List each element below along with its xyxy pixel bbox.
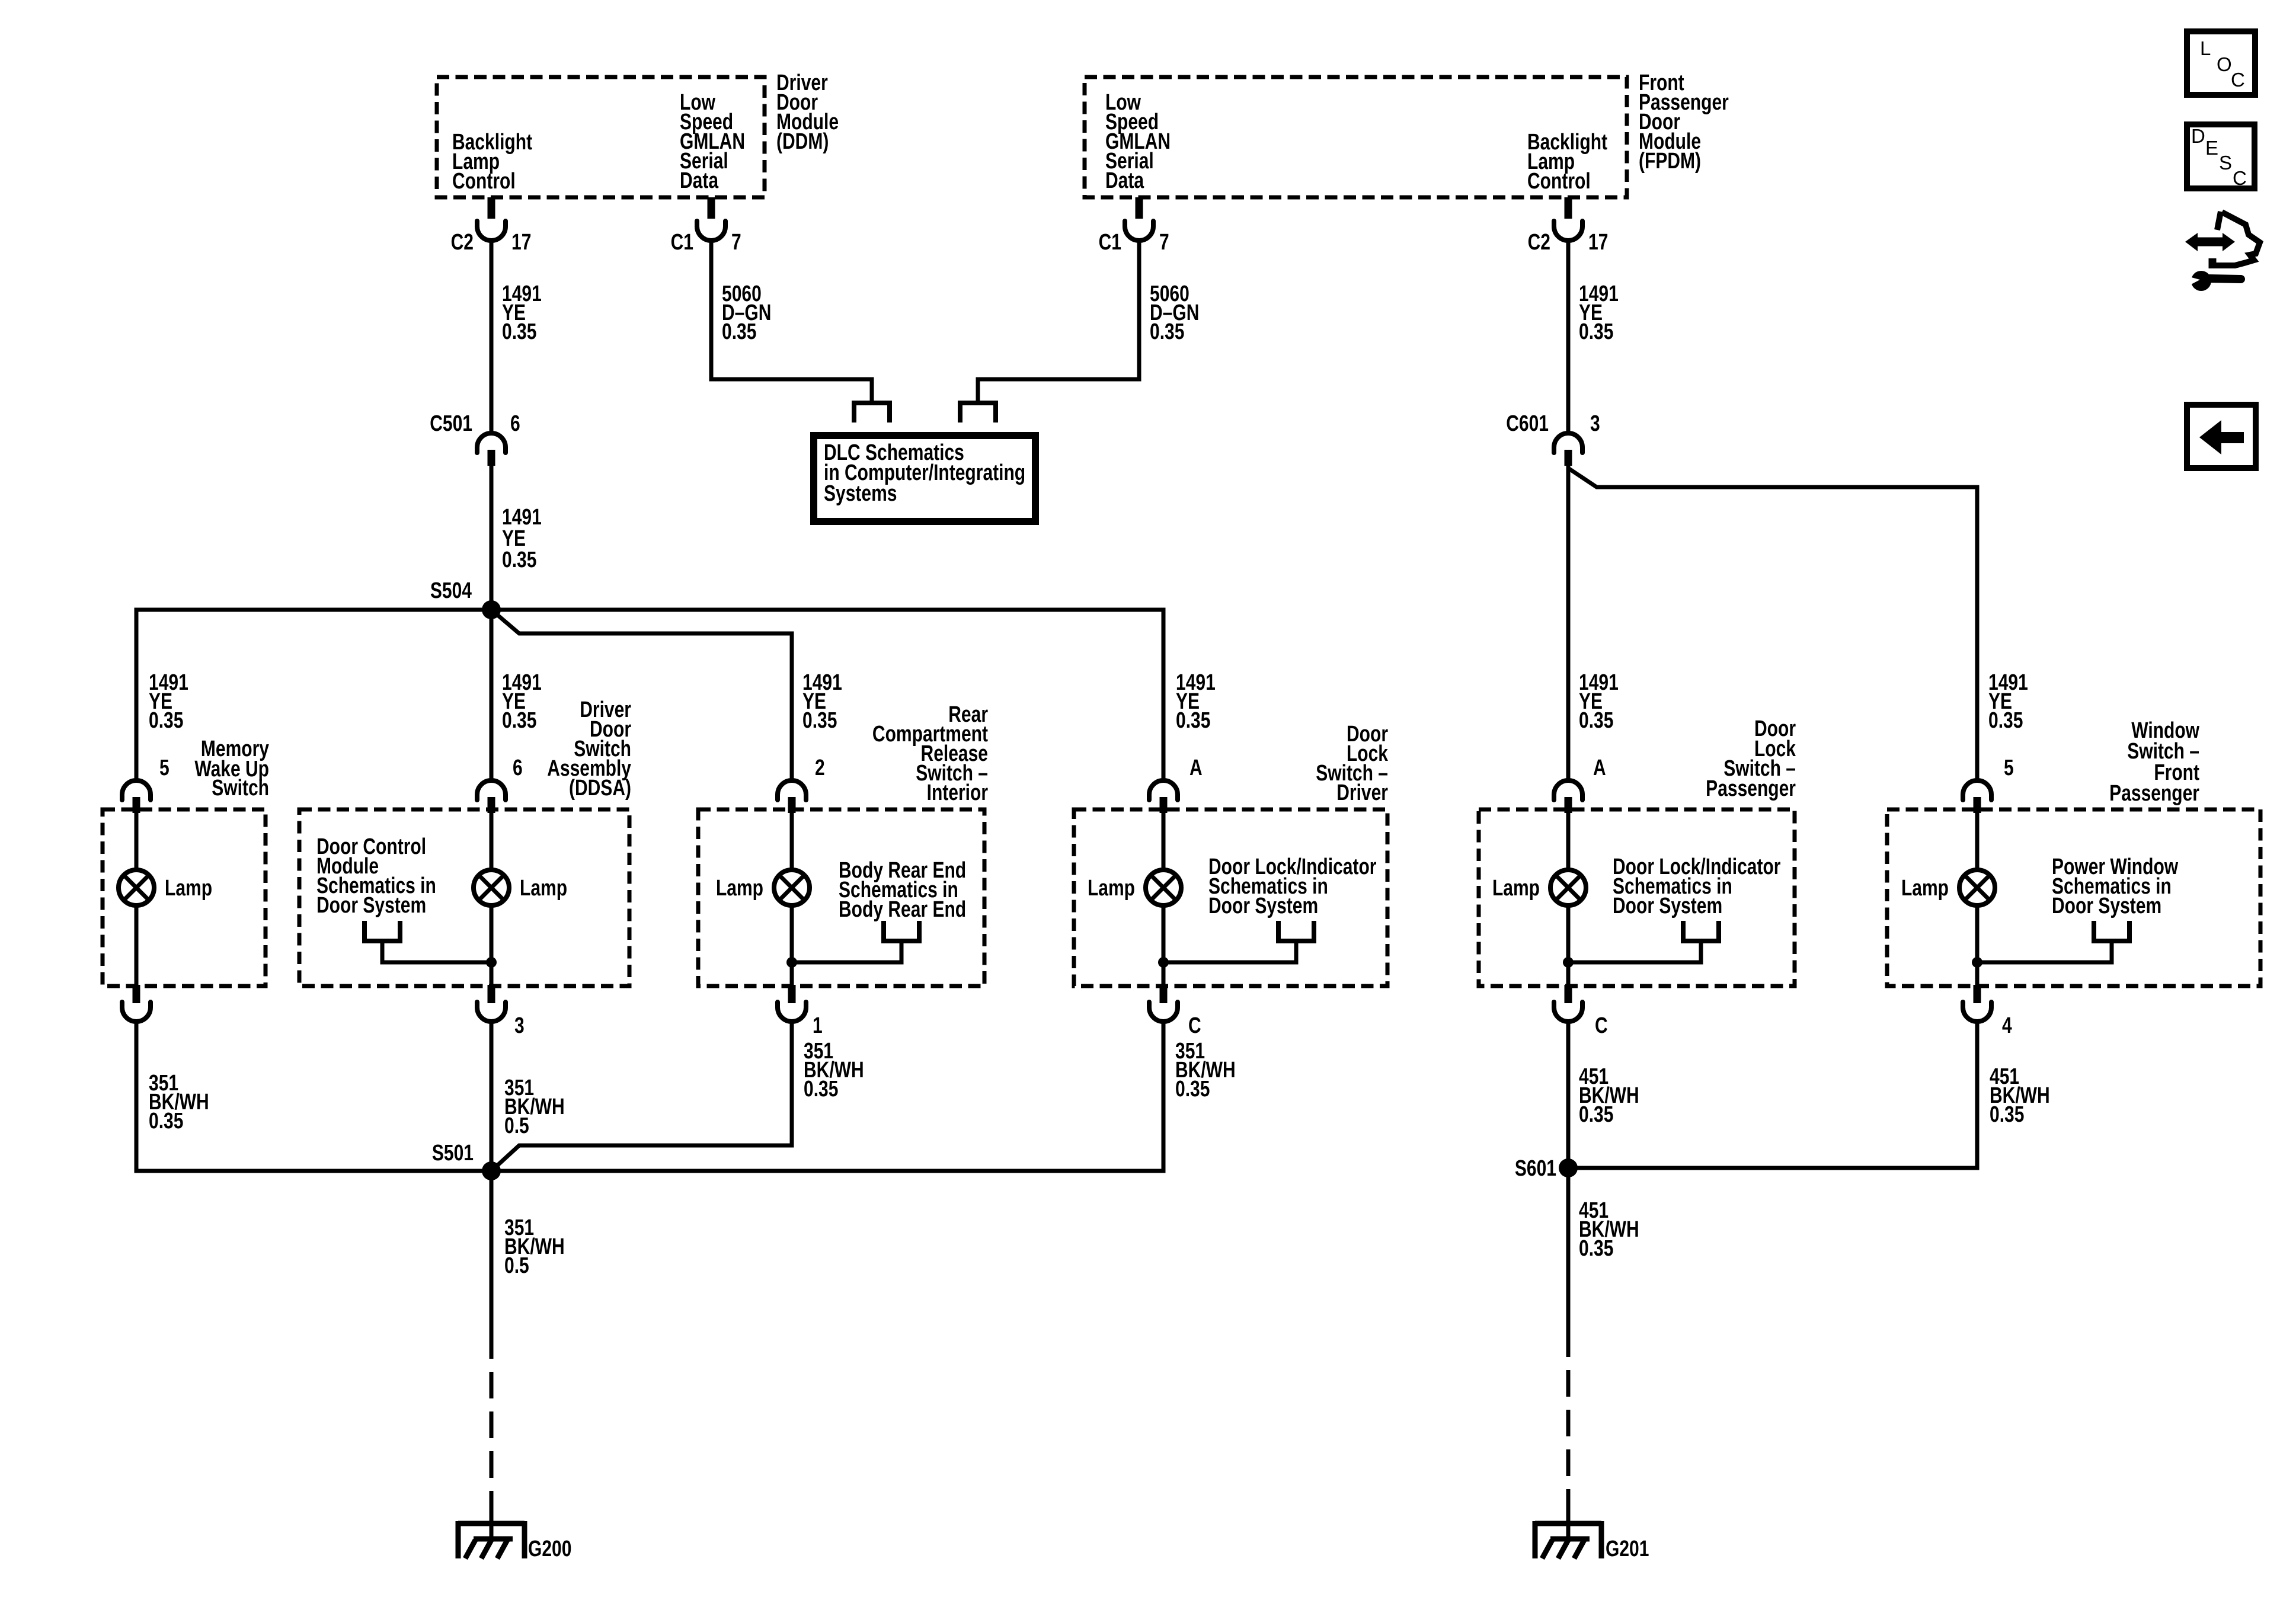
- svg-text:C501: C501: [430, 411, 472, 436]
- wire 5060 D-GN 0.35 from DDM C1 to DLC: [711, 241, 872, 402]
- DLC entry fork right: [960, 401, 996, 422]
- svg-text:0.35: 0.35: [1579, 1236, 1613, 1261]
- svg-text:Passenger: Passenger: [2109, 781, 2199, 806]
- wire lamp to box bottom (DDSA): [490, 813, 494, 986]
- svg-text:5: 5: [159, 756, 170, 780]
- box Window Switch Front Passenger: [1887, 809, 2260, 986]
- lamp (Window Switch): [1901, 870, 1995, 905]
- svg-text:C1: C1: [1099, 230, 1121, 255]
- svg-text:0.35: 0.35: [1579, 319, 1613, 344]
- connector pin 6 (DDSA pin 6): [477, 756, 523, 813]
- wire S504 to Memory Wake Up Switch pin 5: [136, 610, 491, 781]
- svg-text:Passenger: Passenger: [1706, 776, 1796, 801]
- svg-text:A: A: [1189, 756, 1203, 780]
- box Door Lock Switch Driver: [1074, 809, 1387, 986]
- connector pin A (Door Lock Switch Driver pin A): [1149, 756, 1203, 813]
- svg-text:Interior: Interior: [927, 780, 988, 805]
- svg-text:S601: S601: [1515, 1156, 1556, 1181]
- wire 451 BK/WH 0.35 Window Switch pin 4 to S601: [1568, 1022, 2050, 1168]
- svg-text:C2: C2: [451, 230, 474, 255]
- box Door Lock Switch Passenger: [1479, 809, 1795, 986]
- svg-text:0.35: 0.35: [502, 548, 536, 572]
- icon back arrow box: [2187, 405, 2256, 468]
- svg-text:C2: C2: [1528, 230, 1550, 255]
- wire 351 BK/WH 0.5 DDSA pin 3 to S501: [491, 1022, 565, 1171]
- svg-text:0.35: 0.35: [804, 1077, 838, 1102]
- wire 451 BK/WH 0.35 S601 to G201: [1568, 1168, 1639, 1517]
- svg-text:0.5: 0.5: [504, 1253, 529, 1278]
- svg-text:E: E: [2205, 137, 2218, 159]
- svg-text:2: 2: [815, 756, 825, 780]
- svg-text:0.35: 0.35: [149, 708, 183, 733]
- wire S504 to Rear Compartment Release Switch pin 2: [491, 610, 842, 781]
- svg-text:6: 6: [510, 411, 520, 436]
- svg-text:3: 3: [514, 1013, 525, 1038]
- lamp (Rear Compartment Release): [716, 870, 810, 905]
- schematic reference note (Window Switch): [2052, 854, 2178, 918]
- svg-text:G200: G200: [528, 1537, 571, 1561]
- fork symbol + tie wire (Window Switch): [1972, 921, 2129, 968]
- connector pin 2 (Rear Compartment Release pin 2): [778, 756, 825, 813]
- svg-text:Door System: Door System: [2052, 894, 2161, 918]
- icon harness adjust/tool symbol: [2185, 212, 2260, 291]
- splice S501: [432, 1141, 501, 1180]
- label Driver Door Switch Assembly (DDSA): [547, 697, 631, 801]
- svg-text:A: A: [1593, 756, 1606, 780]
- fork symbol + tie wire (Door Lock Driver): [1158, 921, 1314, 968]
- module FPDM (Front Passenger Door Module) dashed box: [1085, 71, 1729, 197]
- svg-text:4: 4: [2002, 1013, 2012, 1038]
- wire C601 branch to Window Switch pin 5: [1568, 468, 2028, 781]
- svg-text:0.35: 0.35: [1150, 319, 1184, 344]
- svg-text:Data: Data: [680, 168, 719, 193]
- svg-text:0.35: 0.35: [1579, 1102, 1613, 1127]
- svg-text:Lamp: Lamp: [1492, 876, 1540, 901]
- svg-text:0.5: 0.5: [504, 1113, 529, 1138]
- connector C2 pin 17 (DDM Backlight Lamp Control): [451, 197, 532, 255]
- wire 5060 D-GN 0.35 from FPDM C1 to DLC: [978, 241, 1199, 402]
- wire lamp to box bottom (Door Lock Driver): [1162, 813, 1166, 986]
- box Driver Door Switch Assembly: [299, 809, 629, 986]
- svg-text:0.35: 0.35: [1579, 708, 1613, 733]
- wire 1491 YE 0.35 from DDM C2 to C501: [491, 241, 542, 434]
- fork symbol + tie wire (Door Lock Passenger): [1563, 921, 1719, 968]
- svg-text:S504: S504: [430, 578, 472, 603]
- connector pin 5 (Window Switch pin 5): [1963, 756, 2014, 813]
- svg-text:7: 7: [731, 230, 741, 255]
- svg-text:0.35: 0.35: [722, 319, 756, 344]
- svg-text:C: C: [1595, 1013, 1608, 1038]
- svg-text:(FPDM): (FPDM): [1639, 149, 1701, 174]
- connector C1 pin 7 (DDM GMLAN): [671, 197, 741, 255]
- svg-text:0.35: 0.35: [1176, 708, 1210, 733]
- svg-text:Systems: Systems: [824, 481, 897, 506]
- wire lamp to box bottom (Door Lock Passenger): [1566, 813, 1571, 986]
- svg-text:0.35: 0.35: [502, 319, 536, 344]
- svg-text:C: C: [2231, 69, 2245, 91]
- wire lamp to box bottom (Rear Compartment Release): [790, 813, 794, 986]
- wire 1491 YE 0.35 from C501 to S504: [491, 466, 542, 610]
- DLC Schematics box: [814, 436, 1035, 521]
- connector bottom pin 1 (Rear Compartment Release): [778, 985, 823, 1038]
- connector C501 pin 6: [430, 411, 520, 466]
- schematic reference note (Rear Compartment Release): [839, 858, 966, 922]
- svg-text:Lamp: Lamp: [520, 876, 567, 901]
- icon DESC box: [2187, 124, 2255, 189]
- svg-text:G201: G201: [1606, 1537, 1649, 1561]
- fork symbol + tie wire (DDSA): [364, 921, 497, 968]
- svg-text:17: 17: [511, 230, 531, 255]
- connector C2 pin 17 (FPDM Backlight Lamp Control): [1528, 197, 1609, 255]
- svg-text:Switch: Switch: [212, 776, 269, 801]
- connector C1 pin 7 (FPDM GMLAN): [1099, 197, 1169, 255]
- svg-text:Door System: Door System: [316, 893, 426, 918]
- wire 351 BK/WH 0.35 Door Lock Driver pin C to S501: [491, 1022, 1236, 1171]
- svg-text:3: 3: [1590, 411, 1600, 436]
- lamp (Door Lock Passenger): [1492, 870, 1586, 905]
- splice S601: [1515, 1156, 1578, 1181]
- DLC entry fork left: [854, 401, 890, 422]
- svg-text:0.35: 0.35: [1175, 1077, 1210, 1102]
- svg-text:Control: Control: [452, 169, 516, 194]
- lamp (Door Lock Driver): [1088, 870, 1181, 905]
- wire S504 to DDSA pin 6: [491, 610, 542, 781]
- label Door Lock Switch - Driver: [1316, 722, 1389, 805]
- wire 351 BK/WH 0.35 Memory switch to S501: [136, 1022, 491, 1171]
- lamp (Memory Wake Up Switch): [119, 870, 212, 905]
- ground G200: [458, 1515, 571, 1561]
- svg-text:(DDSA): (DDSA): [569, 776, 631, 801]
- svg-text:0.35: 0.35: [502, 708, 536, 733]
- wire 351 BK/WH 0.35 Rear Compartment pin 1 to S501: [491, 1022, 864, 1171]
- connector bottom pin 3 (DDSA): [477, 985, 525, 1038]
- svg-text:Lamp: Lamp: [1901, 876, 1949, 901]
- svg-text:1: 1: [813, 1013, 823, 1038]
- connector pin A (Door Lock Switch Passenger pin A): [1554, 756, 1606, 813]
- svg-text:S501: S501: [432, 1141, 474, 1166]
- wire C601 to Door Lock Switch Passenger pin A: [1568, 466, 1619, 781]
- icon LOC box: [2187, 31, 2255, 95]
- svg-text:Lamp: Lamp: [716, 876, 763, 901]
- svg-text:Control: Control: [1527, 169, 1591, 194]
- lamp (DDSA): [474, 870, 567, 905]
- svg-text:Body Rear End: Body Rear End: [839, 897, 966, 922]
- svg-text:0.35: 0.35: [1988, 708, 2023, 733]
- connector C601 pin 3: [1506, 411, 1600, 466]
- wire 451 BK/WH 0.35 Door Lock Passenger pin C to S601: [1568, 1022, 1639, 1168]
- svg-text:5: 5: [2004, 756, 2014, 780]
- schematic reference note (DDSA): [316, 834, 436, 918]
- svg-text:C1: C1: [671, 230, 693, 255]
- svg-text:C601: C601: [1506, 411, 1549, 436]
- wire lamp to box bottom (Memory Wake Up Switch): [135, 813, 139, 986]
- svg-text:7: 7: [1159, 230, 1169, 255]
- wire 1491 YE 0.35 from FPDM C2 to C601: [1568, 241, 1619, 434]
- svg-text:C: C: [2233, 167, 2247, 189]
- connector bottom pin 4 (Window Switch): [1963, 985, 2012, 1038]
- ground G201: [1535, 1515, 1649, 1561]
- connector bottom pin C (Door Lock Driver): [1149, 985, 1201, 1038]
- label Door Lock Switch - Passenger: [1706, 716, 1796, 801]
- connector pin 5 (Memory Wake Up Switch pin 5): [122, 756, 170, 813]
- fork symbol + tie wire (Rear Compartment Release): [786, 921, 919, 968]
- wire 351 BK/WH 0.5 S501 to G200: [491, 1171, 565, 1520]
- svg-text:Lamp: Lamp: [165, 876, 212, 901]
- svg-text:(DDM): (DDM): [776, 129, 829, 154]
- wire S504 to Door Lock Switch Driver pin A: [491, 610, 1216, 781]
- svg-text:S: S: [2219, 152, 2232, 174]
- svg-text:L: L: [2200, 37, 2211, 59]
- svg-text:Door System: Door System: [1613, 894, 1722, 918]
- label Memory Wake Up Switch: [194, 737, 269, 801]
- box Rear Compartment Release Switch: [698, 809, 984, 986]
- svg-text:0.35: 0.35: [149, 1109, 183, 1134]
- svg-text:Data: Data: [1105, 168, 1144, 193]
- svg-text:6: 6: [513, 756, 523, 780]
- svg-text:0.35: 0.35: [802, 708, 837, 733]
- connector bottom pin C (Door Lock Passenger): [1554, 985, 1608, 1038]
- svg-text:Door System: Door System: [1208, 894, 1318, 918]
- svg-text:17: 17: [1588, 230, 1608, 255]
- splice S504: [430, 578, 501, 619]
- connector bottom pin (Memory Wake Up Switch): [122, 985, 151, 1022]
- module DDM (Driver Door Module) dashed box: [437, 71, 839, 197]
- svg-text:O: O: [2217, 53, 2232, 75]
- schematic reference note (Door Lock Driver): [1208, 854, 1376, 918]
- svg-text:0.35: 0.35: [1990, 1102, 2024, 1127]
- wire lamp to box bottom (Window Switch): [1975, 813, 1980, 986]
- label Window Switch - Front Passenger: [2109, 718, 2199, 806]
- svg-text:Driver: Driver: [1336, 780, 1388, 805]
- label Rear Compartment Release Switch - Interior: [872, 702, 988, 805]
- svg-text:Lamp: Lamp: [1088, 876, 1135, 901]
- svg-text:D: D: [2191, 125, 2205, 147]
- svg-text:C: C: [1188, 1013, 1201, 1038]
- schematic reference note (Door Lock Passenger): [1613, 854, 1780, 918]
- box Memory Wake Up Switch: [103, 809, 266, 986]
